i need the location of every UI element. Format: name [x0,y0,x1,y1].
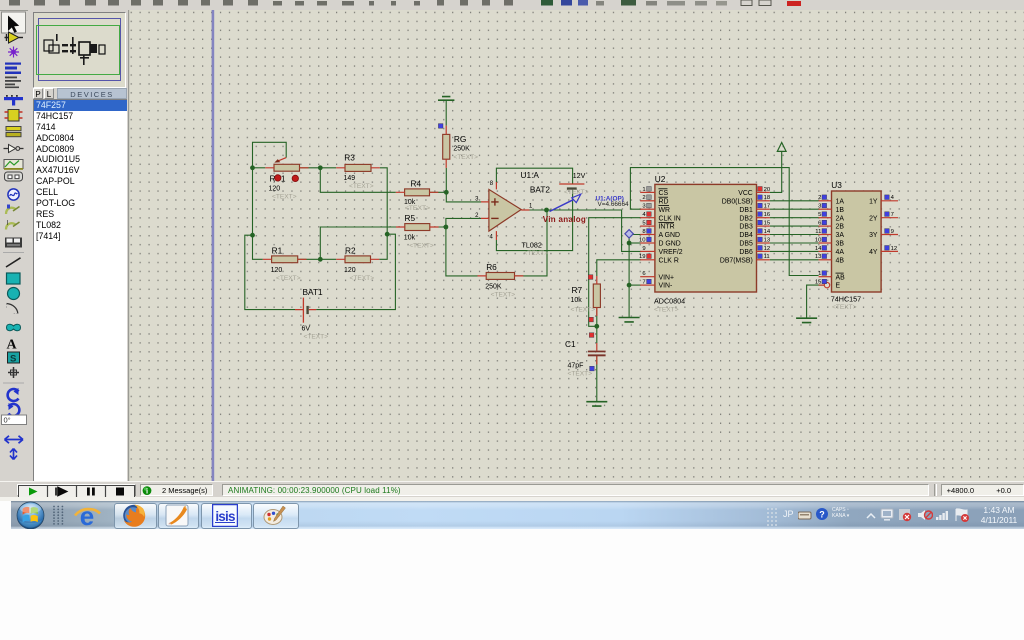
node bridge bottom [318,257,323,262]
svg-text:<TEXT>: <TEXT> [349,183,374,190]
U3 E pin 15 with bubble [819,284,825,286]
journal button [158,503,199,529]
paint button [253,503,299,529]
left window border [128,10,129,481]
svg-text:10k: 10k [404,235,416,242]
svg-text:14: 14 [764,229,771,235]
wire U2 VCC to power arrow [770,152,782,193]
ground GND U3 enable [796,318,817,322]
svg-text:12: 12 [891,246,898,252]
svg-text:1B: 1B [836,207,845,214]
resistor R5 body [405,224,430,231]
svg-text:R2: R2 [345,246,356,256]
wire U2 DB7 to U3 [770,259,819,261]
svg-text:3A: 3A [836,232,845,239]
svg-text:VREF/2: VREF/2 [659,249,683,256]
node VIN- [627,283,632,288]
U3 right pins [881,200,898,202]
windows taskbar [0,501,1024,529]
R7 state squares [588,275,593,280]
svg-text:R1: R1 [272,246,283,256]
wire U2 DB3 to U3 [770,225,819,227]
svg-text:19: 19 [639,254,646,260]
C1 state squares [589,333,594,338]
svg-text:12V: 12V [573,173,586,180]
U2 right pins [757,191,770,193]
svg-text:1A: 1A [836,198,845,205]
svg-text:120: 120 [269,186,281,193]
wire bridge top node to R4 [320,168,396,193]
status bar [0,481,1024,498]
svg-text:DB4: DB4 [739,232,753,239]
schematic editor [128,10,1024,481]
wire left bridge vertical to R1 [253,168,263,259]
svg-text:VIN-: VIN- [659,283,673,290]
top toolbar sliver [0,0,1024,11]
svg-text:<TEXT>: <TEXT> [571,307,596,314]
isis button [201,503,252,529]
svg-text:<TEXT>: <TEXT> [304,334,329,341]
power arrow VCC [777,143,786,152]
svg-text:A GND: A GND [659,232,680,239]
wire RG bottom to opamp pin3 [446,168,481,202]
svg-text:?: ? [819,510,825,520]
wire U2 DB1 to U3 [770,208,819,210]
wire U2 DB4 to U3 [770,234,819,236]
resistor R6 body [486,273,514,280]
svg-text:isis: isis [215,509,235,524]
svg-text:13: 13 [815,254,822,260]
IC U3 74HC157 [832,191,882,292]
svg-text:DB1: DB1 [739,207,753,214]
svg-text:1: 1 [642,187,645,193]
wire opamp V+ to BAT2 top [496,168,572,184]
svg-text:15: 15 [764,221,771,227]
wire U2 VIN- to ground rail [629,284,641,286]
svg-text:Vin analog: Vin analog [543,215,586,224]
object selector [125,10,128,481]
svg-text:R6: R6 [486,262,497,272]
wire U2 WR over top to U3 AB [630,168,818,276]
svg-text:18: 18 [764,195,771,201]
svg-text:<TEXT>: <TEXT> [405,205,430,212]
resistor R2 body [345,256,371,263]
ground flipped above RG [445,101,447,126]
ground GND below C1 [586,402,607,406]
wire U3 E to ground [807,285,825,318]
node R7-C1 [594,324,599,329]
svg-text:R7: R7 [572,285,583,295]
schematic background [128,10,1024,481]
svg-text:6V: 6V [302,326,311,333]
svg-text:2B: 2B [836,224,845,231]
RG blue state square [438,124,443,129]
svg-text:VIN+: VIN+ [659,274,675,281]
wire R5 right to opamp pin2 [430,218,481,227]
svg-text:3B: 3B [836,241,845,248]
svg-text:14: 14 [815,246,822,252]
IC U2 ADC0804 [655,184,757,292]
svg-text:VCC: VCC [738,190,753,197]
svg-text:DB2: DB2 [739,215,753,222]
svg-text:INTR: INTR [659,224,675,231]
svg-text:BAT2: BAT2 [530,185,551,195]
resistor R3 body [345,164,371,171]
battery BAT1 [302,298,304,323]
resistor RG body [443,134,450,159]
U3 AB pin 1 [819,276,832,278]
svg-text:e: e [80,503,94,529]
svg-text:11: 11 [764,254,770,260]
svg-text:DB0(LSB): DB0(LSB) [722,198,753,205]
svg-text:10: 10 [815,237,822,243]
svg-text:CLK IN: CLK IN [659,215,681,222]
svg-text:DB5: DB5 [739,241,753,248]
svg-text:WR: WR [659,207,671,214]
svg-text:DB7(MSB): DB7(MSB) [720,257,753,264]
svg-text:R5: R5 [405,213,416,223]
svg-text:<TEXT>: <TEXT> [276,275,301,282]
svg-text:10: 10 [639,237,646,243]
svg-text:D GND: D GND [659,241,681,248]
svg-text:7: 7 [891,212,894,218]
resistor R4 body [405,189,430,196]
svg-text:<TEXT>: <TEXT> [568,370,593,377]
RV1 animation dot right [292,175,298,181]
ground flipped above RG [438,97,454,101]
wire RV1 right to R3 left [300,167,337,169]
svg-text:12: 12 [764,246,771,252]
U3 left pins [819,200,832,202]
svg-text:<TEXT>: <TEXT> [832,304,857,311]
svg-text:V=4.66664: V=4.66664 [598,201,630,208]
svg-text:R3: R3 [344,153,355,163]
svg-text:7: 7 [642,280,645,286]
capacitor C1 plates [588,351,606,353]
svg-text:U1:A: U1:A [521,170,540,180]
svg-text:2: 2 [642,195,645,201]
svg-text:250K: 250K [485,283,502,290]
wire R4 right to node [430,191,447,193]
svg-text:CLK R: CLK R [659,257,679,264]
wire R6 right to output node [515,210,548,276]
wire bridge right node to BAT1 minus [316,234,395,309]
node bridge right [385,232,390,237]
grip dots [52,505,65,527]
svg-text:11: 11 [815,229,821,235]
wire C1 bottom to ground [596,356,598,402]
svg-text:149: 149 [344,175,356,182]
wire to BAT1 plus [245,235,295,309]
svg-text:RG: RG [454,134,466,144]
origin diamond marker [625,230,633,238]
svg-text:17: 17 [764,204,771,210]
node R4-RG [444,190,449,195]
svg-text:9: 9 [891,229,894,235]
svg-text:13: 13 [764,237,771,243]
wire opamp output to U2 VREF2 [530,210,642,251]
svg-text:<TEXT>: <TEXT> [409,243,434,250]
svg-text:10k: 10k [571,297,583,304]
wire R1 right to R2 left [298,258,337,260]
ground GND U2 analog [619,318,640,322]
svg-text:4B: 4B [836,257,845,264]
svg-text:16: 16 [764,212,771,218]
sheet edge blue line [212,10,215,481]
svg-text:1: 1 [818,271,821,277]
left toolbar icon strip [0,10,28,481]
svg-text:U3: U3 [831,180,842,190]
svg-text:R4: R4 [411,179,422,189]
svg-text:DB3: DB3 [739,224,753,231]
IE icon [73,503,103,529]
wire R7 bottom to C1 top [596,308,598,344]
wire U2 CLK IN to R7 bottom node [589,218,641,327]
svg-text:1Y: 1Y [869,198,878,205]
svg-text:0°: 0° [4,416,11,425]
svg-text:120: 120 [344,267,356,274]
svg-text:74HC157: 74HC157 [831,294,861,303]
svg-text:<TEXT>: <TEXT> [654,306,679,313]
svg-text:I: I [7,220,9,227]
battery BAT2 [559,183,584,185]
svg-text:2: 2 [818,195,821,201]
svg-text:47pF: 47pF [568,362,584,369]
svg-text:CS: CS [659,190,669,197]
svg-text:3Y: 3Y [869,232,878,239]
svg-text:E: E [836,283,841,290]
svg-text:<TEXT>: <TEXT> [453,154,478,161]
svg-text:DB6: DB6 [739,249,753,256]
svg-text:<TEXT>: <TEXT> [491,291,516,298]
wire U2 DB5 to U3 [770,242,819,244]
RV1 animation dot left [275,175,281,181]
svg-text:<TEXT>: <TEXT> [350,275,375,282]
svg-text:BAT1: BAT1 [303,287,324,297]
node R5-R6 [444,225,449,230]
potentiometer RV1 body [274,164,300,171]
svg-text:2A: 2A [836,215,845,222]
op-amp U1:A [489,189,521,231]
wire U2 A GND to ground [629,235,641,318]
svg-text:ADC0804: ADC0804 [654,296,685,305]
svg-text:15: 15 [815,280,822,286]
wire R3 right down to R2 right [379,168,387,259]
svg-text:<TEXT>: <TEXT> [564,189,589,196]
node opamp output [544,208,549,213]
svg-text:4Y: 4Y [869,249,878,256]
resistor R1 body [272,256,298,263]
wire BAT2 bottom to opamp V- [496,189,572,250]
svg-text:250K: 250K [453,146,470,153]
wire RV1 left lead [253,167,266,169]
svg-text:U2: U2 [655,174,666,184]
wire RV1 wiper feed [253,142,287,168]
node RV1 left [250,165,255,170]
wire U2 D GND to ground rail [629,242,641,244]
svg-text:A: A [7,338,18,353]
svg-text:i: i [146,486,148,495]
svg-text:RD: RD [659,198,669,205]
window bottom strip [0,497,1024,501]
wire bridge bottom node to R5 [320,227,396,259]
tray [766,507,780,527]
svg-text:TL082: TL082 [522,241,542,250]
svg-text:S: S [10,354,16,365]
svg-text:<TEXT>: <TEXT> [272,194,297,201]
svg-text:AB: AB [836,274,846,281]
node D GND [627,241,632,246]
svg-text:4A: 4A [836,249,845,256]
wire U2 DB2 to U3 [770,217,819,219]
svg-text:2Y: 2Y [869,215,878,222]
svg-text:<TEXT>: <TEXT> [524,250,549,257]
wire U2 DB0 to U3 [770,200,819,202]
svg-text:C1: C1 [565,339,576,349]
wire U2 DB6 to U3 [770,250,819,252]
firefox button [114,503,157,529]
wire U2 CLK R to R7 top [597,260,641,276]
svg-text:120: 120 [271,267,283,274]
svg-text:20: 20 [764,187,771,193]
U2 left pins [640,191,655,193]
svg-text:9: 9 [642,246,645,252]
node bridge left [250,233,255,238]
wire node to R6 left [446,227,478,276]
node bridge top [318,165,323,170]
resistor R7 body [593,284,600,308]
start orb [15,501,46,530]
probe U1:A(OP) [550,200,574,212]
